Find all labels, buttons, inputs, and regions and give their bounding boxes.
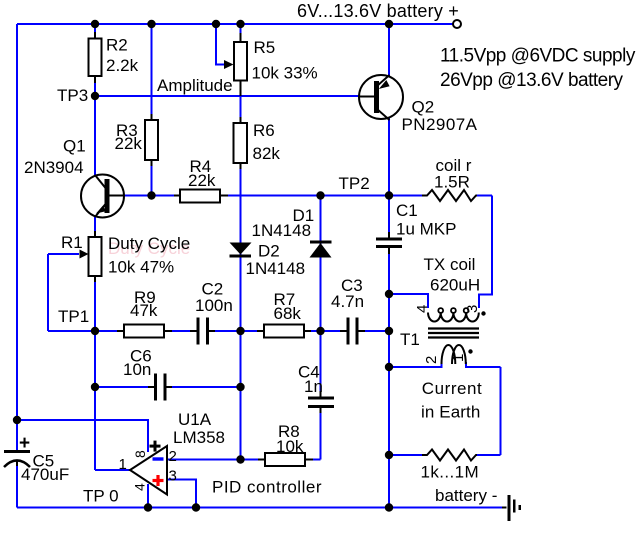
wire secondary row y=367: [389, 362, 501, 367]
svg-text:D2: D2: [258, 242, 280, 261]
svg-text:Duty Cycle: Duty Cycle: [108, 234, 190, 253]
svg-text:47k: 47k: [130, 301, 158, 320]
svg-text:T1: T1: [400, 330, 420, 349]
svg-text:TP3: TP3: [57, 86, 88, 105]
node TP3: [91, 92, 99, 100]
wire C1 bottom to primary: [389, 294, 428, 308]
svg-text:82k: 82k: [253, 144, 281, 163]
capacitor C6: [148, 374, 172, 401]
transformer T1 primary TX coil: [428, 308, 479, 321]
svg-text:LM358: LM358: [173, 428, 225, 447]
opamp non-inverting plus marker: [153, 475, 164, 486]
svg-text:10k 33%: 10k 33%: [252, 64, 318, 83]
node TP2: [385, 191, 393, 199]
transformer T1 phase dot secondary: [468, 349, 472, 353]
svg-text:4.7n: 4.7n: [331, 292, 364, 311]
svg-text:TP 0: TP 0: [83, 487, 119, 506]
node dot earth loop bottom: [385, 451, 393, 459]
node dot C1 bottom: [385, 290, 393, 298]
svg-text:1u MKP: 1u MKP: [396, 220, 456, 239]
svg-text:1N4148: 1N4148: [246, 259, 306, 278]
node dot D1 bottom: [316, 327, 324, 335]
svg-text:2N3904: 2N3904: [24, 158, 84, 177]
svg-text:10n: 10n: [123, 360, 151, 379]
transformer T1 phase dot primary: [481, 311, 485, 315]
wire main right vertical x=389: [388, 24, 390, 508]
node dot ground rail pin3: [192, 503, 200, 511]
svg-text:TP2: TP2: [339, 174, 370, 193]
svg-text:4: 4: [132, 483, 148, 491]
wire opamp output: [95, 469, 130, 471]
svg-text:+: +: [19, 433, 30, 454]
resistor R8: [258, 453, 313, 466]
wire bottom rail: [17, 507, 503, 509]
transistor Q1: [81, 175, 124, 218]
wire earth loop right: [500, 367, 502, 455]
svg-text:2: 2: [169, 448, 177, 465]
svg-text:battery -: battery -: [435, 486, 497, 505]
svg-text:4: 4: [414, 305, 431, 313]
svg-text:470uF: 470uF: [21, 465, 69, 484]
opamp V+ plus marker: [150, 441, 161, 452]
svg-text:100n: 100n: [195, 296, 233, 315]
svg-text:PID controller: PID controller: [212, 478, 322, 497]
wire TP3 to Q2 base: [95, 95, 362, 97]
svg-text:Amplitude: Amplitude: [157, 76, 233, 95]
svg-text:R1: R1: [61, 233, 83, 252]
resistor R6: [234, 117, 248, 169]
svg-text:1N4148: 1N4148: [252, 221, 312, 240]
capacitor C5 470uF electrolytic: [4, 452, 30, 468]
svg-text:68k: 68k: [274, 304, 302, 323]
wire opamp V+ feed: [17, 420, 148, 452]
svg-text:22k: 22k: [115, 134, 143, 153]
wire opamp V- to ground rail: [147, 484, 149, 508]
svg-text:3: 3: [169, 468, 177, 485]
transformer T1 secondary: [442, 345, 466, 364]
svg-text:TP1: TP1: [58, 307, 89, 326]
svg-text:in Earth: in Earth: [421, 403, 480, 422]
resistor coil r 1.5R zigzag: [422, 190, 477, 201]
resistor R3: [145, 114, 158, 166]
wire D1/C4 vertical: [320, 196, 322, 460]
node dot rail R2: [91, 20, 99, 28]
wire R5 wiper feed: [216, 24, 224, 65]
svg-text:R6: R6: [253, 121, 275, 140]
node dot R3 bottom: [147, 191, 155, 199]
svg-text:TX coil: TX coil: [424, 255, 476, 274]
wire Q1 base row y=195.5: [124, 195, 492, 197]
wire TP1 main row y=331: [48, 330, 389, 332]
svg-text:Q2: Q2: [412, 98, 435, 117]
node dot C6 right: [236, 383, 244, 391]
svg-text:3: 3: [464, 305, 481, 313]
svg-text:Q1: Q1: [63, 137, 86, 156]
wire left rail: [16, 24, 18, 508]
svg-text:C1: C1: [396, 201, 418, 220]
wire R2/Q1/R1 vertical x=95: [94, 24, 96, 470]
diode D2 1N4148: [230, 243, 252, 258]
wire earth loop bottom: [389, 454, 501, 456]
diode D1 1N4148: [310, 241, 332, 258]
node dot rail R5 wiper: [212, 20, 220, 28]
capacitor C4: [308, 391, 334, 413]
resistor R2: [89, 32, 102, 83]
svg-text:10k 47%: 10k 47%: [108, 258, 174, 277]
svg-text:8: 8: [132, 450, 148, 458]
resistor R9: [117, 325, 172, 338]
capacitor C2: [190, 318, 215, 345]
svg-text:Current: Current: [422, 379, 483, 398]
node dot C6 left: [91, 383, 99, 391]
node dot ground rail right: [385, 503, 393, 511]
potentiometer R5: [224, 33, 247, 96]
node dot rail Q2: [385, 20, 393, 28]
node dot main row right: [385, 327, 393, 335]
node dot secondary row: [385, 363, 393, 371]
resistor R4: [174, 190, 228, 203]
node dot D2 bottom: [236, 327, 244, 335]
node dot pin2 row: [236, 455, 244, 463]
svg-text:PN2907A: PN2907A: [402, 115, 478, 134]
transistor Q2: [359, 75, 403, 120]
svg-text:2: 2: [423, 356, 440, 364]
resistor R7: [257, 325, 311, 338]
wire coil r loop right: [479, 196, 492, 309]
svg-text:1: 1: [450, 354, 467, 362]
svg-text:1n: 1n: [304, 377, 323, 396]
wire R3 vertical: [151, 24, 153, 196]
potentiometer R1: [80, 231, 102, 282]
resistor 1k...1M zigzag: [422, 450, 477, 461]
battery terminal open circle: [453, 20, 461, 28]
svg-text:R2: R2: [106, 36, 128, 55]
svg-text:U1A: U1A: [178, 410, 212, 429]
wire R5-R6-D2 vertical: [240, 24, 242, 460]
svg-text:26Vpp @13.6V battery: 26Vpp @13.6V battery: [440, 70, 624, 91]
svg-text:R5: R5: [254, 38, 276, 57]
opamp inverting minus marker: [153, 457, 164, 460]
svg-text:1k...1M: 1k...1M: [421, 463, 480, 482]
node dot D1 top: [316, 191, 324, 199]
node dot left rail opamp tap: [13, 416, 21, 424]
svg-text:6V...13.6V battery +: 6V...13.6V battery +: [297, 1, 459, 21]
wire R1 wiper: [48, 254, 79, 331]
wire C6 row: [95, 386, 241, 388]
svg-text:620uH: 620uH: [430, 276, 480, 295]
svg-text:1: 1: [119, 456, 127, 473]
node TP1: [91, 327, 99, 335]
ground battery minus symbol: [502, 495, 521, 521]
wire opamp pin2 row: [167, 459, 321, 461]
wire top positive rail: [17, 23, 453, 25]
svg-text:22k: 22k: [188, 171, 216, 190]
svg-text:1.5R: 1.5R: [434, 173, 470, 192]
capacitor C1: [376, 232, 402, 254]
node dot rail R3: [147, 20, 155, 28]
wire opamp pin3 drop: [167, 480, 196, 508]
svg-text:2.2k: 2.2k: [106, 56, 139, 75]
svg-text:11.5Vpp @6VDC supply: 11.5Vpp @6VDC supply: [440, 46, 636, 67]
svg-text:10k: 10k: [276, 437, 304, 456]
node dot rail R5: [236, 20, 244, 28]
op-amp U1A LM358: [130, 446, 167, 495]
node dot ground rail V-: [144, 503, 152, 511]
capacitor C3: [340, 318, 365, 345]
transformer T1 core: [428, 329, 479, 338]
